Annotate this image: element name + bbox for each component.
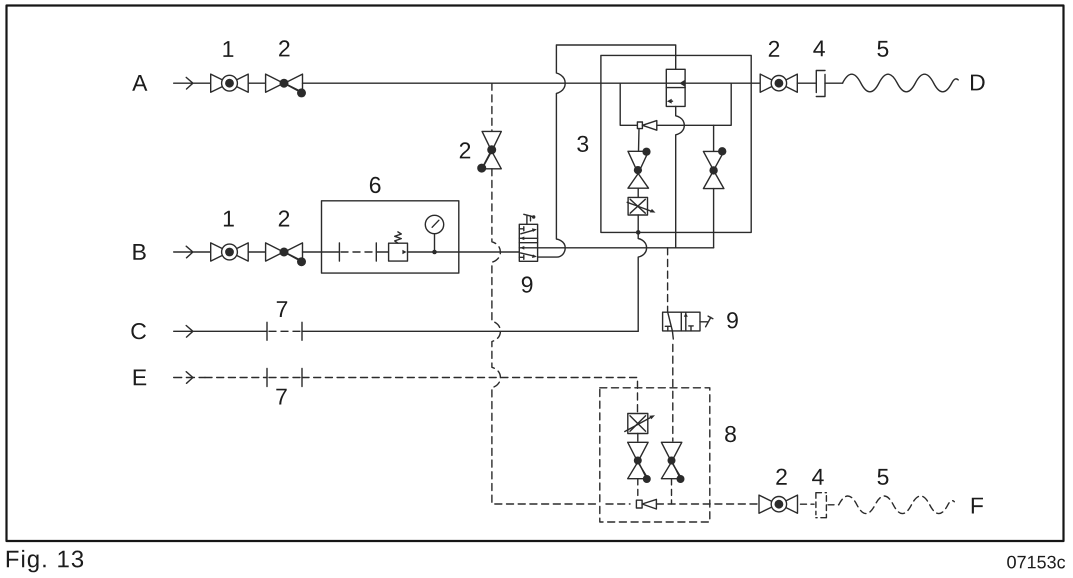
- label 8: [725, 426, 736, 442]
- wire y248 header (solenoid 9 to right branch): [538, 247, 714, 249]
- quick coupling 4 (top): [816, 71, 825, 97]
- label 9 (row B): [522, 276, 533, 292]
- wire valve2 to box 6: [303, 251, 340, 253]
- node F label: [972, 498, 983, 514]
- valve 2 (row B drain valve): [266, 243, 303, 261]
- wire row F dashed through box 8: [606, 503, 630, 505]
- label 7 (row C): [277, 301, 287, 317]
- node E label: [134, 370, 147, 386]
- label 1 (row A): [223, 41, 233, 57]
- wire: [248, 251, 265, 253]
- node C label: [131, 323, 146, 339]
- pipe break 7 (row E): [267, 369, 302, 387]
- valve (box 8 left, with dots): [628, 442, 648, 478]
- label 4 (row F): [812, 469, 824, 485]
- wire coupling to hose: [825, 82, 843, 84]
- wire dashed drop from row A: [491, 83, 493, 131]
- valve 1 (row A shut-off ball valve): [211, 74, 249, 92]
- pressure gauge (box 6): [425, 215, 443, 233]
- wire row A main run: [303, 82, 667, 84]
- label 2 (top right): [769, 41, 779, 57]
- check valve (box 3): [637, 122, 642, 129]
- wire right branch down to y248: [713, 189, 715, 248]
- label 9 (row C): [727, 312, 738, 328]
- box 6 enclosure: [322, 201, 459, 273]
- wire dash to hose: [828, 504, 839, 506]
- valve 2 (row F): [759, 495, 798, 513]
- valve 2 (vertical, on dashed line): [482, 131, 501, 168]
- wire dashes valve2F to coupling: [801, 503, 815, 505]
- hose 5 (top, wavy): [843, 74, 959, 92]
- label 3: [577, 136, 588, 152]
- caption Fig. 13: [7, 550, 83, 572]
- doc number 07153c: [1007, 556, 1065, 569]
- label 7 (row E): [276, 389, 286, 405]
- label 2 (row B): [279, 210, 289, 226]
- wire between valve 1 and valve 2: [248, 82, 265, 84]
- wire right branch drop from pilot header: [713, 125, 715, 151]
- wire dashed with hops at rows B, C, E then corner to row F: [492, 169, 600, 504]
- wire changeover valve bottom drop with hop over pilot line: [676, 106, 685, 247]
- wire row C to riser: [302, 330, 638, 332]
- check valve (box 8, on row F): [636, 500, 642, 508]
- wire restrictor down, cross box edge (dot) and hop over y248 line: [638, 215, 646, 331]
- label 6: [370, 177, 381, 193]
- wire dashed pilot from y248 down to solenoid 9C: [667, 248, 669, 312]
- label 5 (row F): [878, 469, 889, 485]
- solenoid 9B lever actuator: [524, 214, 534, 224]
- valve 1 (row B): [211, 243, 249, 261]
- wire regulator to box edge and on to solenoid 9: [408, 251, 520, 253]
- label 4 (top): [813, 41, 825, 57]
- valve (box 3 left branch, with dots): [628, 151, 649, 188]
- pipe break 7 (row C): [267, 322, 302, 340]
- junction dot at box-3 bottom edge crossing: [636, 230, 641, 235]
- changeover valve U3a (two-position): [666, 69, 685, 106]
- wire restrictor to left valve: [637, 434, 639, 442]
- box 3 enclosure: [601, 55, 751, 232]
- node D label: [971, 75, 985, 91]
- wire valve to restrictor: [637, 189, 639, 198]
- label 2 (row A): [279, 40, 289, 56]
- node A label: [132, 75, 147, 91]
- regulator (box 6) with spring: [389, 243, 408, 261]
- wire pilot header y=125: [620, 83, 731, 125]
- valve 2 (row A drain valve): [266, 74, 303, 92]
- wire pilot pipe: top run and left drop with hops: [538, 45, 676, 257]
- valve (box 3 right branch, with dots): [703, 151, 724, 188]
- wire from check valve down to throttle branch: [638, 129, 641, 152]
- node B label: [133, 244, 145, 260]
- box 8 enclosure (dashed): [600, 388, 710, 522]
- wire right valve down to row F (dashed): [671, 479, 673, 504]
- wire row F dashed to valve 2F: [656, 503, 759, 505]
- restrictor (box 8) with X and arrow: [628, 414, 648, 434]
- wire row E dashed to box 8 drop: [302, 378, 638, 414]
- solenoid valve 9B body: [519, 224, 537, 261]
- pipe break ticks (inside box 6): [339, 243, 376, 261]
- wire left valve down to row F (dashed): [637, 479, 639, 500]
- label 2 (vertical valve): [460, 142, 470, 158]
- label 1 (row B): [224, 211, 234, 227]
- quick coupling 4 (row F, dashed): [816, 493, 827, 518]
- hose 5 (row F, dashed wavy): [839, 496, 955, 514]
- wire valve2 to coupling: [797, 82, 816, 84]
- wire C inlet with arrow: [174, 326, 267, 338]
- wire dashed pilot from solenoid 9C down into box 8: [671, 331, 674, 339]
- wire B inlet with arrow: [174, 246, 211, 258]
- wire A inlet with arrow: [174, 77, 211, 89]
- solenoid valve 9C body: [663, 312, 700, 331]
- label 5 (top): [877, 41, 888, 57]
- valve 2 (top right): [760, 74, 797, 92]
- wire E dashed inlet with arrow: [174, 377, 205, 379]
- wire row A right of changeover valve: [685, 82, 760, 84]
- restrictor R3 (box with X and arrow): [628, 197, 647, 215]
- label 2 (row F): [776, 469, 786, 485]
- solenoid 9C lever actuator: [700, 316, 713, 327]
- wire tick to regulator: [376, 251, 388, 253]
- valve (box 8 right, with dots): [661, 442, 681, 478]
